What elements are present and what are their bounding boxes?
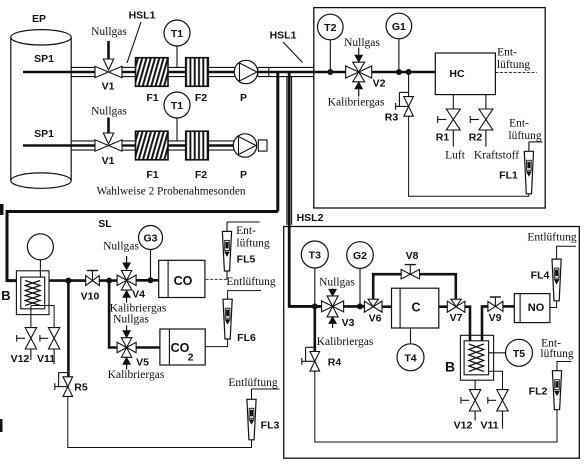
cooler B inner box (right) (464, 341, 489, 375)
svg-text:V1: V1 (102, 81, 115, 93)
Nullgas label at V4 (103, 241, 139, 253)
label V8 (406, 250, 419, 262)
label SL (98, 218, 112, 230)
valve V1 row1 (95, 66, 122, 77)
Nullgas arrow into V5 (123, 326, 130, 338)
svg-text:V11: V11 (37, 353, 55, 365)
svg-text:V10: V10 (81, 291, 100, 303)
svg-text:F1: F1 (146, 92, 158, 104)
flow meter FL1 (524, 151, 533, 194)
Nullgas arrow into V2 (355, 48, 362, 62)
heated line HSL1 from pump to box (tube outline) (258, 67, 314, 76)
line V5 to CO2 (thick) (136, 346, 161, 349)
label R1 (436, 132, 450, 144)
temperature sensor T2 (318, 14, 344, 40)
svg-text:Wahlweise 2 Probenahmesonden: Wahlweise 2 Probenahmesonden (96, 186, 245, 198)
label R4 (328, 357, 342, 369)
condensate line to V12 right (474, 380, 476, 391)
label P row2 (240, 169, 247, 181)
svg-text:R3: R3 (385, 112, 399, 124)
condensate line to V11 left (31, 306, 54, 328)
svg-text:Kalibriergas: Kalibriergas (317, 336, 374, 348)
sample probe line SP1 row1 (23, 71, 96, 73)
label R3 (385, 112, 399, 124)
valve V4 (4-way) (117, 271, 136, 291)
analyzer C box (392, 288, 439, 328)
Nullgas label row2 (91, 106, 127, 118)
label R5 (74, 382, 88, 394)
svg-text:FL3: FL3 (261, 420, 280, 432)
tube stub after pump row2 (258, 140, 267, 151)
line R3 to FL1 (409, 116, 529, 196)
tube F2 to pump row2 (208, 141, 234, 150)
svg-text:P: P (240, 92, 247, 104)
temperature sensor T5 (506, 339, 533, 366)
label F1 row2 (146, 169, 158, 181)
Kalibriergas arrow into V5 (123, 358, 130, 370)
line cooler B to V9 (thick) (482, 306, 488, 340)
valve V7 (3-way) (447, 299, 465, 312)
label V9 (489, 312, 502, 324)
svg-text:V1: V1 (102, 155, 115, 167)
pressure gauge G1 (386, 13, 412, 39)
temperature sensor T1 stem row2 (176, 118, 178, 141)
Nullgas label at V2 (344, 37, 380, 49)
svg-text:Kraftstoff: Kraftstoff (474, 150, 519, 162)
label Luft (445, 150, 466, 162)
valve V5 (4-way) (117, 338, 136, 358)
flow meter FL6 (223, 299, 232, 339)
svg-text:V3: V3 (342, 317, 355, 329)
label Kraftstoff (474, 150, 519, 162)
svg-text:V12: V12 (11, 353, 30, 365)
HSL1 box (314, 8, 545, 208)
label V4 (132, 289, 145, 301)
svg-text:CO: CO (174, 274, 193, 288)
branch line to R5 (thick) (67, 281, 70, 377)
caption Wahlweise 2 Probenahmesonden (96, 186, 245, 198)
svg-text:V5: V5 (136, 357, 149, 369)
svg-text:T3: T3 (309, 250, 321, 262)
label C (411, 301, 420, 315)
flow meter FL2 (552, 371, 561, 410)
pressure regulator R5 (55, 373, 73, 397)
svg-text:FL1: FL1 (499, 170, 518, 182)
temperature sensor T1 stem row1 (176, 46, 178, 67)
svg-text:V7: V7 (450, 312, 463, 324)
svg-text:HC: HC (449, 68, 465, 80)
flow meter FL3 (247, 399, 256, 440)
temperature sensor T2 stem (327, 40, 333, 75)
svg-text:lüftung: lüftung (497, 59, 530, 71)
label FL1 (499, 170, 518, 182)
Nullgas label at V3 (319, 277, 355, 289)
Entlueftung label at FL1 (508, 118, 541, 143)
Nullgas label row1 (91, 26, 127, 38)
temperature sensor T1 row2 (164, 92, 190, 118)
label V12 (left) (11, 353, 30, 365)
drain valve V12 (left) (17, 328, 37, 360)
svg-text:V6: V6 (369, 313, 382, 325)
svg-text:V9: V9 (489, 312, 502, 324)
filter F1 row2 (136, 131, 169, 160)
label HSL2 (297, 212, 324, 224)
label V11 (left) (37, 353, 55, 365)
svg-text:FL6: FL6 (237, 332, 256, 344)
svg-text:F1: F1 (146, 169, 158, 181)
FL5 vent line (227, 222, 260, 231)
pressure regulator R4 (302, 347, 320, 371)
scan artifact left edge (0, 204, 4, 432)
label SP1 (probe 2) (34, 128, 54, 140)
svg-text:F2: F2 (195, 92, 207, 104)
Entlueftung label at FL3 (228, 377, 277, 389)
svg-text:lüftung: lüftung (508, 130, 541, 142)
branch to R4 (thick) (313, 306, 316, 351)
HC vent line (495, 72, 536, 74)
label V5 (136, 357, 149, 369)
Nullgas arrow into V4 (123, 256, 130, 270)
condensate line to V12 left (30, 306, 32, 328)
sample line B to V10 (thick) (49, 279, 86, 282)
Entlueftung label at FL2 (540, 338, 573, 361)
FL2 vent line (557, 362, 571, 371)
filter F2 row1 (186, 58, 209, 87)
label P row1 (240, 92, 247, 104)
svg-text:V8: V8 (406, 250, 419, 262)
svg-text:SP1: SP1 (34, 128, 54, 140)
label V12 (right) (454, 420, 473, 432)
temperature sensor T1 row1 (164, 20, 190, 46)
Nullgas arrow into V3 (329, 289, 336, 296)
line R4 to FL2 (315, 371, 557, 442)
line V3 to V6 (thick) (344, 305, 365, 308)
svg-text:Nullgas: Nullgas (319, 277, 355, 289)
svg-text:Nullgas: Nullgas (91, 26, 127, 38)
svg-text:Nullgas: Nullgas (113, 314, 149, 326)
label R2 (469, 132, 483, 144)
drain valve V11 (left) (40, 328, 60, 364)
label HSL1 (left) with leader (127, 10, 156, 64)
svg-text:G1: G1 (392, 21, 406, 33)
svg-text:Kalibriergas: Kalibriergas (328, 97, 385, 109)
label V11 (right) (480, 420, 498, 432)
line V9 to NO (thick) (503, 305, 514, 308)
svg-text:C: C (411, 301, 420, 315)
line HC to R2 (485, 95, 487, 109)
svg-text:B: B (1, 288, 10, 303)
Nullgas inlet arrow row1 (103, 41, 113, 70)
svg-text:R4: R4 (328, 357, 342, 369)
sample probe line SP1 row2 (23, 144, 96, 146)
heated line SL path (thick) (7, 212, 278, 281)
tube F1 to F2 row1 (168, 67, 186, 76)
valve V9 (488, 297, 503, 311)
svg-text:P: P (240, 169, 247, 181)
svg-text:SP1: SP1 (34, 53, 54, 65)
cooler B coil (25, 281, 40, 306)
label F2 row1 (195, 92, 207, 104)
tube V1 to F1 row1 (122, 67, 136, 76)
branch dot to R5 (65, 278, 71, 284)
svg-text:V2: V2 (373, 78, 386, 90)
svg-text:T1: T1 (171, 100, 183, 112)
svg-text:V12: V12 (454, 420, 473, 432)
heated line HSL2 drop (thick) (289, 72, 322, 306)
line HC to R1 (452, 95, 454, 109)
label V3 (342, 317, 355, 329)
line C to V7 (thick) (439, 305, 447, 308)
drain valve V12 (right) (461, 390, 481, 421)
label FL3 (261, 420, 280, 432)
svg-text:Ent-: Ent- (236, 225, 256, 237)
line NO to FL4 (550, 301, 557, 308)
Entlueftung label at FL5 (236, 225, 270, 249)
line R5 to FL3 (68, 396, 252, 447)
label V7 (450, 312, 463, 324)
FL1 vent line (529, 142, 543, 151)
pressure gauge G3 stem (148, 250, 154, 284)
svg-text:Luft: Luft (445, 150, 466, 162)
main sample line after pump (thick) (258, 71, 435, 74)
pressure gauge G2 stem (357, 269, 363, 310)
svg-text:T1: T1 (171, 28, 183, 40)
Entlueftung label at HC (497, 47, 530, 72)
cooler B inner box (21, 277, 45, 309)
svg-text:R1: R1 (436, 132, 450, 144)
temperature sensor T3 (301, 241, 328, 268)
analyzer NO box (514, 294, 550, 323)
svg-text:G2: G2 (353, 250, 367, 262)
drain valve V11 (right) (488, 390, 508, 429)
label FL5 (237, 254, 256, 266)
svg-text:R5: R5 (74, 382, 88, 394)
cooler B motor circle (27, 234, 53, 277)
label FL6 (237, 332, 256, 344)
Kalibriergas label at V3 (317, 336, 374, 348)
temperature sensor T5 link (489, 352, 506, 354)
label V10 (81, 291, 100, 303)
line CO2 to FL6 (205, 339, 227, 347)
pump P row1 (234, 60, 257, 83)
svg-text:lüftung: lüftung (236, 237, 269, 249)
svg-text:Nullgas: Nullgas (344, 37, 380, 49)
pressure regulator R3 (396, 92, 414, 116)
pressure gauge G3 (139, 226, 163, 250)
svg-text:G3: G3 (143, 233, 157, 245)
filter F1 row1 (136, 58, 169, 87)
Nullgas label between V4 V5 (113, 314, 149, 326)
label FL4 (531, 270, 550, 282)
Kalibriergas label at V2 (328, 97, 385, 109)
svg-text:Kalibriergas: Kalibriergas (108, 369, 165, 381)
svg-text:FL5: FL5 (237, 254, 256, 266)
heated line HSL2 tube outline drop (287, 77, 292, 225)
svg-text:R2: R2 (469, 132, 483, 144)
label FL2 (529, 386, 548, 398)
pressure gauge G2 (347, 242, 374, 269)
svg-text:HSL1: HSL1 (129, 10, 156, 22)
Entlueftung label at CO outlet (226, 276, 275, 288)
temperature sensor T4 (397, 344, 424, 371)
svg-text:V11: V11 (480, 420, 498, 432)
label F1 row1 (146, 92, 158, 104)
temperature sensor T3 stem (312, 268, 318, 309)
FL4 vent line (557, 246, 576, 259)
analyzer HC box (435, 53, 495, 95)
valve V2 (4-way) (346, 62, 372, 82)
line V6 to C (thick) (382, 305, 392, 308)
label F2 row2 (195, 169, 207, 181)
label CO2 (171, 341, 194, 364)
label NO (528, 302, 545, 314)
tube F2 to pump row1 (208, 67, 234, 76)
heated tube from EP to V1 row2 (71, 141, 95, 150)
pressure gauge G1 stem (396, 39, 402, 75)
svg-text:2: 2 (188, 352, 194, 364)
svg-text:FL2: FL2 (529, 386, 548, 398)
valve R1 (438, 109, 461, 130)
label HC (449, 68, 465, 80)
label B (right cooler) (445, 359, 455, 375)
svg-text:Ent-: Ent- (497, 47, 517, 59)
valve R2 (470, 109, 493, 130)
valve V1 row2 (95, 140, 122, 151)
Kalibriergas arrow into V4 (123, 291, 130, 303)
Kalibriergas label at V5 (108, 369, 165, 381)
svg-text:T5: T5 (513, 348, 525, 360)
Kalibriergas arrow into V2 (355, 82, 362, 96)
label B (left cooler) (1, 288, 10, 303)
bypass line V6 to V8 to V7 (thick) (373, 274, 456, 299)
label SP1 (probe 1) (34, 53, 54, 65)
valve V3 (4-way) (322, 296, 344, 317)
line V10 to V4 (thick) (99, 279, 116, 282)
cooler B outer box (16, 271, 49, 315)
HSL2 box (284, 227, 580, 459)
valve V6 (3-way) (364, 299, 382, 312)
filter F2 row2 (186, 131, 209, 160)
svg-text:Entlüftung: Entlüftung (226, 276, 275, 288)
analyzer CO box (159, 260, 205, 297)
flow meter FL4 (552, 259, 561, 301)
FL3 vent line (252, 389, 280, 399)
analyzer CO2 box (160, 329, 205, 365)
Luft inlet line (452, 130, 454, 147)
tube F1 to F2 row2 (168, 141, 186, 150)
Kraftstoff inlet line (485, 130, 487, 147)
valve V8 (401, 265, 419, 279)
svg-text:F2: F2 (195, 169, 207, 181)
svg-text:T4: T4 (404, 352, 416, 364)
svg-text:lüftung: lüftung (540, 348, 573, 360)
svg-text:Nullgas: Nullgas (103, 241, 139, 253)
condensate line to V11 right (489, 371, 503, 391)
tube V1 to F1 row2 (122, 141, 136, 150)
label V1 row2 (102, 155, 115, 167)
label V2 (373, 78, 386, 90)
svg-text:V4: V4 (132, 289, 145, 301)
label CO (174, 274, 193, 288)
label V1 row1 (102, 81, 115, 93)
label HSL1 (right) with leader (270, 30, 303, 63)
FL5 drain stub (226, 271, 228, 279)
svg-text:B: B (445, 359, 455, 375)
valve V10 (86, 271, 100, 286)
svg-text:EP: EP (32, 13, 46, 25)
svg-text:T2: T2 (324, 22, 336, 34)
line V4 to CO (thick) (136, 279, 159, 282)
svg-text:SL: SL (98, 218, 112, 230)
heated line SL drop (thick) (276, 72, 279, 212)
flow meter FL5 (222, 231, 231, 271)
label V6 (369, 313, 382, 325)
FL6 vent line (228, 291, 261, 300)
svg-text:FL4: FL4 (531, 270, 550, 282)
branch dot to V5 (106, 278, 112, 284)
Nullgas inlet arrow row2 (103, 118, 113, 145)
main line HSL2 (thick) (289, 305, 322, 308)
svg-text:HSL1: HSL1 (270, 30, 297, 42)
cooler B outer box (right) (460, 335, 493, 380)
Kalibriergas arrow into V3 (329, 317, 336, 328)
line to V5 (thick) (109, 281, 117, 348)
svg-text:HSL2: HSL2 (297, 212, 324, 224)
label EP (32, 13, 46, 25)
svg-text:Ent-: Ent- (509, 118, 529, 130)
svg-text:Entlüftung: Entlüftung (228, 377, 277, 389)
exhaust pipe EP (cylinder) (11, 30, 71, 189)
heated tube from EP to V1 row1 (71, 67, 95, 76)
Kalibriergas label at V4 (110, 303, 167, 315)
svg-text:NO: NO (528, 302, 545, 314)
line V7 into cooler B (thick) (465, 307, 470, 341)
pump P row2 (233, 134, 256, 157)
cooler B coil (right) (469, 344, 484, 372)
temperature sensor T4 stem (410, 328, 412, 344)
svg-text:Nullgas: Nullgas (91, 106, 127, 118)
branch to R3 (406, 69, 412, 97)
svg-text:Entlüftung: Entlüftung (527, 232, 576, 244)
Entlueftung label at FL4 (527, 232, 576, 244)
line CO to FL5 (206, 278, 227, 280)
